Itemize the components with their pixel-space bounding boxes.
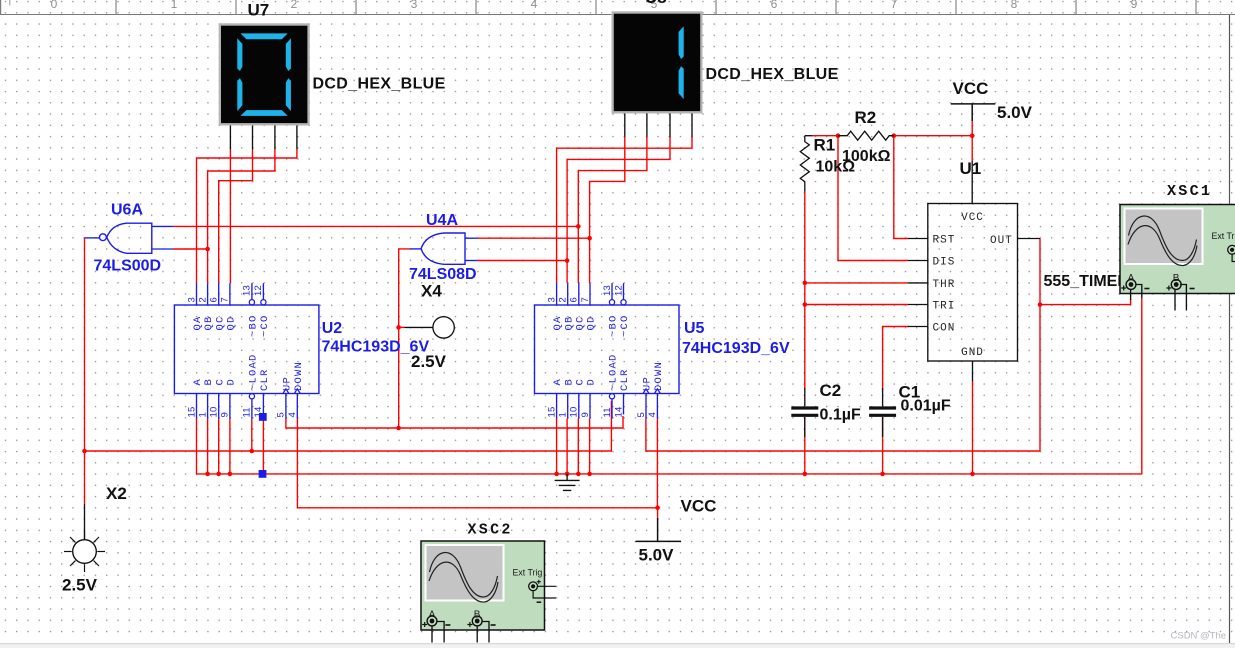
wire junction (587, 236, 592, 241)
svg-text:B: B (1173, 273, 1180, 284)
wire U6A input2 to U2 QB net (173, 248, 207, 250)
svg-text:RST: RST (933, 235, 956, 247)
ruler bar (0, 14, 1235, 16)
wire U7 pin c to U2 QC (219, 150, 253, 284)
wire junction (565, 258, 570, 263)
svg-text:CSDN @The: CSDN @The (1171, 631, 1227, 642)
svg-text:4: 4 (287, 412, 298, 417)
svg-text:11: 11 (602, 407, 613, 417)
wire U2 pin10 down (218, 419, 220, 474)
AND gate U4A (mirrored) (410, 233, 478, 264)
svg-text:0.01µF: 0.01µF (901, 398, 951, 415)
svg-text:DCD_HEX_BLUE: DCD_HEX_BLUE (706, 66, 839, 83)
svg-text:VCC: VCC (953, 79, 989, 98)
svg-text:X4: X4 (421, 282, 442, 301)
svg-text:4: 4 (531, 0, 538, 11)
wire U8 pin d to U5 QD (590, 137, 625, 284)
wire junction (803, 302, 808, 307)
XSC1 A- pin stub (1136, 285, 1142, 299)
XSC1 B- pin stub (1180, 285, 1186, 311)
wire THR TRI cap branch (805, 191, 908, 390)
wire X4 stub (399, 326, 405, 328)
svg-text:QC: QC (574, 315, 586, 330)
wire XSC1 A- down to ground bus (1141, 298, 1143, 474)
svg-text:CLR: CLR (259, 368, 271, 391)
wire junction (803, 472, 808, 477)
svg-text:GND: GND (961, 347, 984, 359)
svg-text:QD: QD (226, 315, 238, 330)
svg-text:74HC193D_6V: 74HC193D_6V (682, 340, 790, 357)
7-segment display U7 showing 0 (219, 23, 310, 149)
wire junction (396, 325, 401, 330)
wire U5 pin10 down (577, 419, 579, 474)
svg-text:5: 5 (276, 412, 287, 417)
svg-text:1: 1 (197, 412, 208, 417)
svg-text:U8: U8 (645, 0, 667, 7)
svg-text:TRI: TRI (933, 301, 956, 313)
svg-text:QD: QD (586, 315, 598, 330)
wire U4A output to X4 net (399, 249, 410, 428)
wire U2 ~LOAD stub down (251, 419, 253, 452)
wire junction (970, 472, 975, 477)
svg-text:U2: U2 (322, 320, 343, 337)
svg-text:2: 2 (291, 0, 298, 11)
svg-text:R1: R1 (814, 135, 836, 154)
svg-text:74LS00D: 74LS00D (94, 258, 162, 275)
wire U5 pin15 down (556, 419, 558, 474)
capacitor C1 leads (882, 388, 884, 437)
wire junction (880, 472, 885, 477)
wire VCC node to RST (894, 136, 908, 239)
svg-text:U1: U1 (960, 159, 982, 178)
svg-text:4: 4 (647, 412, 658, 417)
wire junction (205, 472, 210, 477)
svg-text:UP: UP (282, 376, 294, 391)
wire junction (250, 449, 255, 454)
wire U2 DOWN to VCC net (297, 419, 657, 508)
svg-text:D: D (226, 378, 238, 386)
wire R2 right to VCC node (894, 135, 972, 137)
svg-text:2: 2 (197, 297, 208, 302)
wire junction (205, 247, 210, 252)
svg-text:CLR: CLR (619, 368, 631, 391)
7-segment display U8 showing 1 (612, 11, 703, 137)
wire U2 pin1 down (207, 419, 209, 474)
svg-text:6: 6 (771, 0, 778, 11)
XSC2 A+ pin stub (431, 627, 433, 643)
svg-text:0.1µF: 0.1µF (820, 407, 861, 424)
blue connector square upper (259, 413, 267, 421)
ruler tick 4 (595, 0, 597, 15)
svg-text:100kΩ: 100kΩ (842, 148, 891, 165)
wire U8 pin a to U5 QA (557, 137, 692, 284)
svg-text:7: 7 (580, 297, 591, 302)
svg-text:3: 3 (546, 297, 557, 302)
svg-text:9: 9 (220, 412, 231, 417)
ruler tick 1 (235, 0, 237, 15)
svg-text:~CO: ~CO (619, 314, 631, 337)
svg-text:555_TIMER: 555_TIMER (1044, 273, 1130, 290)
blue connector square lower (259, 470, 267, 478)
svg-text:10: 10 (209, 407, 220, 418)
counter U5 74HC193D (535, 283, 680, 418)
svg-text:C: C (574, 378, 586, 386)
svg-text:13: 13 (602, 285, 613, 296)
resistor R2 100k horizontal (838, 131, 894, 140)
wire U7 pin d to U2 QD (229, 150, 231, 284)
wire U5 pin1 down (566, 419, 568, 474)
wire U2 UP to U5 CLR (286, 416, 623, 428)
svg-text:R2: R2 (855, 108, 877, 127)
wire VCC symbol to U1 (971, 121, 973, 161)
svg-text:Ext Trig: Ext Trig (1212, 231, 1235, 241)
svg-text:3: 3 (411, 0, 418, 11)
oscilloscope XSC2 (421, 541, 556, 630)
ruler tick 9 (1195, 0, 1197, 15)
wire junction (554, 472, 559, 477)
svg-text:13: 13 (242, 285, 253, 296)
svg-text:74LS08D: 74LS08D (409, 266, 477, 283)
svg-text:A: A (429, 609, 436, 620)
svg-text:DOWN: DOWN (653, 361, 665, 391)
wire CON to C1 (883, 327, 909, 391)
svg-text:5.0V: 5.0V (639, 546, 675, 565)
wire junction (228, 472, 233, 477)
svg-text:1: 1 (171, 0, 178, 11)
555 timer U1 box (908, 161, 1040, 382)
wire 555 GND to ground bus (972, 382, 974, 474)
wire junction (587, 472, 592, 477)
wire junction (216, 472, 221, 477)
svg-text:12: 12 (613, 285, 624, 296)
wire U4A input2 to U5 QB net (478, 260, 567, 262)
svg-text:9: 9 (1131, 0, 1138, 11)
wire U6A output down to X2 (84, 238, 86, 504)
XSC2 A- pin stub (437, 622, 444, 643)
svg-text:2.5V: 2.5V (62, 576, 98, 595)
wire junction (565, 472, 570, 477)
svg-text:~CO: ~CO (259, 314, 271, 337)
wire U6A input1 to QC net (173, 225, 578, 227)
svg-text:15: 15 (546, 407, 557, 418)
probe X2 (64, 504, 105, 572)
ground symbol (555, 474, 580, 491)
svg-text:5: 5 (636, 412, 647, 417)
capacitor C2 0.1uF (791, 408, 818, 415)
svg-text:10: 10 (569, 407, 580, 418)
svg-text:6: 6 (569, 297, 580, 302)
svg-text:C2: C2 (820, 381, 842, 400)
svg-text:VCC: VCC (681, 497, 717, 516)
svg-text:QC: QC (214, 315, 226, 330)
wire junction (803, 281, 808, 286)
svg-text:2: 2 (558, 297, 569, 302)
XSC2 B- pin stub (482, 622, 489, 643)
wire U2 pin9 down (229, 419, 231, 474)
XSC1 B+ pin stub (1174, 290, 1176, 311)
VCC power symbol bottom (636, 518, 682, 541)
svg-text:X2: X2 (106, 484, 127, 503)
VCC power symbol top (951, 104, 996, 121)
ruler tick 2 (355, 0, 357, 15)
wire junction (82, 449, 87, 454)
wire junction (1038, 302, 1043, 307)
svg-text:B: B (474, 609, 481, 620)
NAND gate U6A (mirrored) (85, 223, 174, 253)
svg-text:XSC2: XSC2 (468, 521, 513, 538)
wire junction (655, 506, 660, 511)
wire U5 DOWN down (656, 419, 658, 508)
wire U2 CLR to square (262, 419, 264, 471)
ruler tick 0 (115, 0, 117, 15)
svg-text:15: 15 (186, 407, 197, 418)
wire U4A input1 to U5 QD net (478, 237, 590, 239)
ruler tick 3 (475, 0, 477, 15)
svg-text:U4A: U4A (426, 212, 458, 229)
svg-text:U7: U7 (248, 0, 270, 19)
wire C1 to ground bus (882, 417, 884, 474)
svg-text:D: D (586, 378, 598, 386)
wire junction (576, 224, 581, 229)
wire ground bus (197, 419, 1142, 474)
svg-text:14: 14 (613, 407, 624, 418)
svg-text:~LOAD: ~LOAD (608, 353, 620, 391)
svg-text:12: 12 (253, 285, 264, 296)
svg-text:~BO: ~BO (608, 314, 620, 337)
ruler tick 5 (715, 0, 717, 15)
wire R1R2 node to DIS (812, 136, 908, 261)
wire U7 pin b to U2 QB (208, 150, 275, 284)
wire junction (970, 133, 975, 138)
wire U7 pin a to U2 QA (197, 150, 297, 284)
svg-text:DOWN: DOWN (293, 361, 305, 391)
svg-text:1: 1 (558, 412, 569, 417)
svg-text:DCD_HEX_BLUE: DCD_HEX_BLUE (313, 76, 446, 93)
svg-text:2.5V: 2.5V (411, 352, 447, 371)
wire load net horizontal (85, 401, 612, 451)
probe X4 (405, 317, 455, 338)
wire U8 pin b to U5 QB (567, 137, 670, 284)
svg-text:C: C (214, 378, 226, 386)
svg-text:6: 6 (209, 297, 220, 302)
XSC2 B+ pin stub (476, 627, 478, 643)
wire C2 to ground bus (804, 417, 806, 474)
svg-text:THR: THR (933, 279, 956, 291)
svg-text:U6A: U6A (111, 202, 143, 219)
resistor R1 10k vertical (800, 136, 812, 192)
svg-text:11: 11 (242, 407, 253, 417)
svg-text:Ext Trig: Ext Trig (513, 567, 543, 577)
oscilloscope XSC1 (1120, 205, 1235, 294)
capacitor C2 leads (804, 388, 806, 437)
svg-text:CON: CON (933, 323, 956, 335)
wire junction (576, 472, 581, 477)
capacitor C1 0.01uF (869, 408, 896, 415)
sheet right border (1229, 15, 1231, 643)
XSC1 A+ pin stub (1130, 290, 1132, 301)
svg-text:7: 7 (220, 297, 231, 302)
wire U5 pin9 down (589, 419, 591, 474)
svg-text:8: 8 (1011, 0, 1018, 11)
wire junction (396, 426, 401, 431)
wire U8 pin c to U5 QC (578, 137, 647, 284)
svg-text:OUT: OUT (990, 235, 1013, 247)
wire VCC stub below dot (657, 508, 659, 518)
ruler tick 7 (955, 0, 957, 15)
svg-text:~LOAD: ~LOAD (248, 353, 260, 391)
counter U2 74HC193D (174, 283, 319, 418)
svg-text:A: A (1128, 273, 1135, 284)
ruler tick 8 (1075, 0, 1077, 15)
svg-text:3: 3 (186, 297, 197, 302)
wire junction (836, 133, 841, 138)
wire OUT branch to XSC1 A+ (1040, 299, 1131, 305)
bottom scrollbar strip (0, 643, 1235, 644)
svg-text:~BO: ~BO (248, 314, 260, 337)
svg-text:VCC: VCC (961, 212, 984, 224)
svg-text:XSC1: XSC1 (1167, 183, 1212, 200)
svg-text:7: 7 (891, 0, 898, 11)
ruler tick 6 (835, 0, 837, 15)
svg-text:UP: UP (642, 376, 654, 391)
svg-text:0: 0 (51, 0, 58, 11)
wire U5 UP to 555 OUT (646, 239, 1040, 452)
svg-text:9: 9 (580, 412, 591, 417)
svg-text:U5: U5 (684, 320, 705, 337)
svg-text:DIS: DIS (933, 257, 956, 269)
wire junction (892, 133, 897, 138)
svg-text:5.0V: 5.0V (997, 103, 1033, 122)
